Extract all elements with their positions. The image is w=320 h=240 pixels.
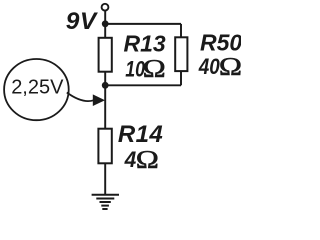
svg-text:9V: 9V xyxy=(66,8,99,35)
svg-text:2,25V: 2,25V xyxy=(11,76,64,98)
svg-text:R13: R13 xyxy=(124,31,166,57)
svg-text:4: 4 xyxy=(124,146,137,172)
svg-text:Ω: Ω xyxy=(219,53,241,81)
svg-text:Ω: Ω xyxy=(136,146,159,174)
svg-text:40: 40 xyxy=(198,55,220,80)
svg-text:R14: R14 xyxy=(118,121,163,148)
svg-text:Ω: Ω xyxy=(143,55,166,83)
svg-text:R50: R50 xyxy=(200,30,241,56)
